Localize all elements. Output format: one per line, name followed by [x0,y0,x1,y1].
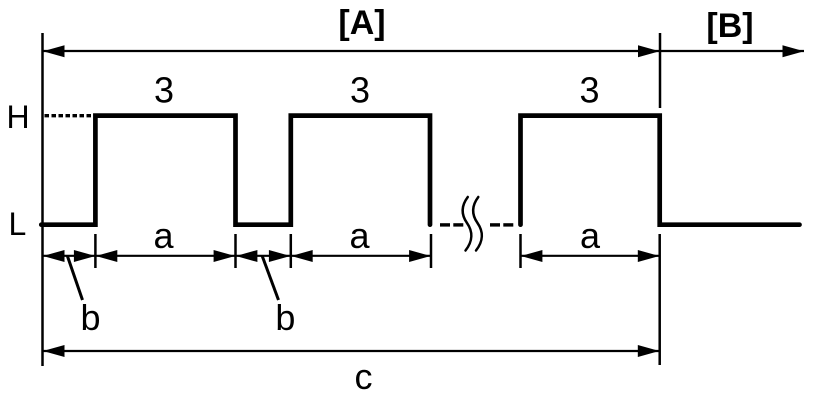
leader line b1 [67,256,82,300]
svg-text:c: c [355,356,373,397]
dimension b1 (double-headed, outward tips) [43,255,96,257]
break squiggle left [463,197,472,251]
left axis extension line [41,33,44,366]
leader line b2 [262,256,278,300]
waveform: leading L segment and pulse 1 [41,116,430,225]
dimension c [43,350,660,352]
svg-text:3: 3 [154,70,174,111]
dimension b2 [236,255,291,257]
svg-text:H: H [7,99,30,135]
svg-text:a: a [580,215,601,256]
dimension line [A] [43,50,660,52]
svg-text:L: L [9,206,27,242]
dimension ray [B] [660,50,804,52]
H level dashed reference line [45,114,96,117]
svg-text:3: 3 [350,70,370,111]
tick at pulse3 rise [519,234,522,268]
svg-text:[B]: [B] [706,7,753,45]
svg-text:a: a [153,215,174,256]
right extension tick (top, between [A] and [B]) [659,33,662,108]
break squiggle right [473,197,482,251]
svg-text:3: 3 [579,70,599,111]
dashed L segment (interrupted span) [440,223,450,226]
dimension a2 [291,255,431,257]
right extension tick (bottom, for a and c dimensions) [658,234,661,365]
waveform: pulse 3 and trailing L segment [521,116,800,225]
svg-text:[A]: [A] [338,4,385,42]
tick at pulse2 fall [430,234,433,268]
tick at pulse2 rise [290,234,293,268]
dimension a1 [95,255,235,257]
dimension a3 [521,255,660,257]
svg-text:b: b [275,297,295,338]
tick at pulse1 fall [234,234,237,268]
svg-text:a: a [349,215,370,256]
tick at pulse1 rise [94,234,97,268]
svg-text:b: b [80,297,100,338]
